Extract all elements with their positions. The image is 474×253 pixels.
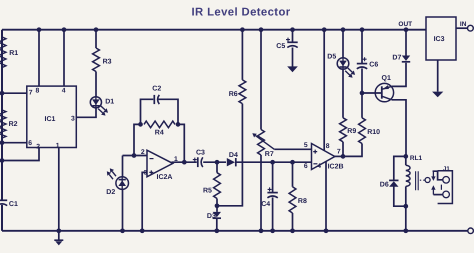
svg-text:C5: C5	[276, 43, 285, 50]
connector J1 pin2	[443, 191, 450, 198]
junction top rail D7	[404, 27, 409, 32]
svg-text:IR Level Detector: IR Level Detector	[191, 7, 290, 19]
junction R5 D3 node	[215, 203, 220, 208]
wire feedback to output	[178, 124, 184, 162]
connector J1 divider	[440, 185, 442, 190]
svg-text:7: 7	[337, 149, 341, 156]
wire R5 top	[216, 162, 218, 173]
transistor Q1	[375, 83, 393, 101]
wire R7 top	[260, 30, 262, 130]
junction left rail pin2	[0, 158, 4, 163]
diode D3	[213, 212, 221, 218]
wire top power rail	[2, 29, 426, 31]
svg-text:6: 6	[28, 140, 32, 147]
junction IC2B output	[341, 154, 346, 159]
svg-text:IC1: IC1	[45, 116, 56, 123]
junction bottom rail pin4	[324, 228, 329, 233]
junction top rail R7	[259, 27, 264, 32]
LED D5 arrows	[348, 68, 353, 72]
wire IC1 pin7	[2, 92, 27, 94]
op-amp IC2A plus	[149, 170, 153, 174]
relay contact common	[425, 178, 430, 183]
wire bottom ground rail	[2, 230, 468, 232]
wire C6 top	[361, 30, 363, 64]
svg-text:R10: R10	[367, 129, 380, 136]
junction node X	[215, 160, 220, 165]
op-amp IC2B plus	[313, 150, 317, 154]
svg-text:IC3: IC3	[434, 36, 445, 43]
wire IC2B pin8	[323, 30, 325, 151]
capacitor C6	[357, 57, 367, 69]
wire C5 top	[292, 30, 294, 43]
svg-text:D1: D1	[105, 98, 114, 105]
wire D6 bottom	[394, 187, 406, 207]
svg-text:R5: R5	[203, 188, 212, 195]
wire C6 to R10	[361, 68, 363, 117]
svg-text:D5: D5	[327, 54, 336, 61]
capacitor C2	[154, 95, 159, 104]
junction bottom rail R8	[290, 228, 295, 233]
connector J1 outline	[438, 171, 453, 204]
svg-text:4: 4	[62, 88, 66, 95]
svg-text:C6: C6	[369, 61, 378, 68]
wire D3 to ground	[216, 219, 218, 231]
wire C2 loop right	[159, 99, 179, 124]
junction node Y R8	[290, 160, 295, 165]
svg-text:C4: C4	[261, 201, 270, 208]
resistor R5	[214, 173, 221, 199]
power arrow IC3	[432, 92, 443, 98]
wire C4 branch	[272, 162, 274, 192]
junction bottom rail IC2A plus	[140, 228, 145, 233]
wire IC1 pin2	[2, 148, 39, 161]
junction node Y C4	[270, 160, 275, 165]
svg-text:IC2B: IC2B	[328, 164, 344, 171]
diode D6	[389, 180, 398, 186]
svg-text:D4: D4	[229, 152, 238, 159]
junction feedback node	[132, 153, 137, 158]
op-amp IC2B minus	[313, 163, 317, 165]
junction top rail C5	[290, 27, 295, 32]
wire C2 loop	[141, 99, 154, 124]
wire R3 to D1	[95, 72, 97, 97]
junction top rail pin8	[322, 27, 327, 32]
wire R8 bottom	[292, 213, 294, 231]
connector J1 pin1	[443, 177, 450, 184]
wire R9 bottom	[342, 142, 344, 157]
junction bottom rail C4	[270, 228, 275, 233]
potentiometer R7 body	[258, 130, 265, 156]
wire R10 bottom	[343, 144, 362, 157]
junction left rail pin7	[0, 91, 4, 96]
svg-text:R1: R1	[9, 50, 18, 57]
wire relay coil top	[405, 156, 407, 165]
wire left supply rail	[1, 30, 3, 201]
junction bottom rail pin1	[56, 228, 61, 233]
junction top rail x96	[94, 27, 99, 32]
op-amp IC2A minus	[150, 158, 154, 160]
terminal IN circle	[468, 25, 474, 31]
wire D5 top	[342, 30, 344, 58]
wire IC1 pin8	[38, 30, 40, 86]
wire IC3 IN	[456, 27, 467, 29]
capacitor C3	[193, 157, 203, 167]
svg-text:D2: D2	[106, 189, 115, 196]
junction R4 left	[138, 122, 143, 127]
svg-text:J1: J1	[443, 165, 450, 172]
svg-text:OUT: OUT	[398, 21, 412, 28]
relay RL1 coil	[406, 165, 410, 186]
svg-text:C3: C3	[196, 150, 205, 157]
wire R6 down crossing	[217, 104, 242, 206]
svg-text:3: 3	[71, 115, 75, 122]
svg-text:R8: R8	[298, 198, 307, 205]
svg-text:Q1: Q1	[382, 75, 391, 82]
svg-text:D3: D3	[207, 213, 216, 220]
wire IC2A output	[172, 161, 197, 163]
ground symbol	[54, 240, 63, 245]
wire D2 top	[122, 156, 124, 178]
junction bottom rail R7	[259, 228, 264, 233]
svg-text:8: 8	[326, 143, 330, 150]
junction top rail x39	[37, 27, 42, 32]
svg-text:D7: D7	[392, 55, 401, 62]
junction top rail D5	[341, 27, 346, 32]
potentiometer R7 wiper	[256, 136, 275, 150]
wire D7 top	[405, 30, 407, 56]
capacitor C4	[267, 187, 277, 197]
wire D1 to IC1 pin3	[76, 108, 96, 118]
regulator IC3 box	[426, 17, 456, 60]
junction left rail pin6	[0, 140, 4, 145]
wire IC1 pin1 to ground	[58, 148, 60, 231]
LED D1 arrows	[101, 106, 106, 110]
capacitor C1	[0, 200, 7, 205]
svg-text:5: 5	[304, 142, 308, 149]
wire feedback riser	[134, 124, 141, 155]
wire IC2B output	[334, 155, 344, 157]
wire left rail lower segment	[1, 205, 3, 231]
resistor R4	[144, 121, 175, 128]
wire C4 bottom	[272, 197, 274, 230]
svg-text:R6: R6	[229, 91, 238, 98]
relay contact arrows	[432, 172, 434, 177]
wire ground stub	[58, 231, 60, 240]
junction top rail R6	[240, 27, 245, 32]
wire D5 to R9	[342, 69, 344, 118]
svg-text:4: 4	[317, 163, 321, 170]
capacitor C5	[286, 38, 298, 48]
wire contact to J1 top	[433, 171, 442, 180]
svg-text:IN: IN	[460, 21, 467, 28]
junction bottom rail relay	[403, 228, 408, 233]
wire R7 wiper to IC2B pin5	[274, 148, 311, 150]
resistor R10	[359, 118, 366, 144]
junction R4 right	[176, 122, 181, 127]
wire relay coil bottom	[405, 186, 407, 206]
resistor R3	[93, 48, 100, 72]
wire R5 to D3	[216, 199, 218, 212]
wire Q1 base	[362, 92, 382, 94]
wire D2 bottom	[122, 189, 124, 231]
LED D1	[90, 97, 101, 108]
svg-text:RL1: RL1	[410, 155, 423, 162]
svg-text:C2: C2	[152, 86, 161, 93]
wire R8 top	[292, 162, 294, 187]
svg-text:6: 6	[304, 163, 308, 170]
wire R7 bottom to ground	[260, 155, 262, 231]
svg-text:IC2A: IC2A	[157, 174, 173, 181]
wire R6 top	[241, 30, 243, 80]
resistor R8	[289, 187, 296, 213]
junction bottom rail D2	[120, 228, 125, 233]
svg-text:2: 2	[141, 149, 145, 156]
wire C3 to node	[203, 161, 226, 163]
op-amp IC2B	[312, 144, 335, 170]
junction relay node	[403, 154, 408, 159]
svg-text:R4: R4	[155, 130, 164, 137]
junction top rail x64	[62, 27, 67, 32]
junction bottom rail D3	[214, 228, 219, 233]
svg-text:C1: C1	[9, 201, 18, 208]
op-amp IC1 box	[27, 86, 77, 147]
wire Q1 emitter	[392, 63, 406, 87]
LED D2	[116, 177, 129, 190]
relay RL1 link dashes	[420, 179, 425, 181]
resistor R1	[0, 37, 6, 68]
wire Q1 collector	[392, 100, 406, 157]
svg-text:R7: R7	[265, 151, 274, 158]
wire relay to ground	[405, 206, 407, 231]
diode D7	[402, 56, 410, 62]
resistor R6	[239, 80, 246, 104]
svg-text:D6: D6	[380, 182, 389, 189]
terminal bottom right circle	[468, 228, 474, 234]
wire IC3 ground	[437, 60, 439, 92]
junction relay bottom node	[403, 204, 408, 209]
svg-text:7: 7	[29, 89, 33, 96]
wire IC1 pin6	[2, 142, 27, 144]
wire contact to J1 bottom	[433, 194, 442, 196]
wire D4 to IC2B pin6	[235, 161, 312, 163]
wire R3 top	[95, 30, 97, 48]
power arrow C5	[287, 66, 298, 72]
resistor R9	[340, 118, 347, 142]
wire IC2A plus input	[142, 172, 147, 230]
diode D4	[227, 158, 236, 166]
op-amp IC2A	[147, 150, 173, 177]
junction Q1 base node	[360, 91, 365, 96]
junction top rail C6	[360, 27, 365, 32]
wire C5 bottom	[292, 48, 294, 67]
svg-text:R9: R9	[347, 128, 356, 135]
junction IC2A output	[182, 160, 187, 165]
svg-text:8: 8	[36, 87, 40, 94]
resistor R2	[0, 110, 6, 138]
svg-text:R3: R3	[103, 59, 112, 66]
svg-text:R2: R2	[9, 121, 18, 128]
LED D5	[337, 58, 349, 70]
LED D2 arrows	[112, 171, 116, 176]
wire D6 top	[394, 156, 406, 179]
wire IC2A inverting input	[123, 155, 148, 157]
relay RL1 core	[416, 171, 419, 190]
wire IC2B pin4	[325, 162, 327, 231]
wire IC1 pin4	[63, 30, 65, 86]
